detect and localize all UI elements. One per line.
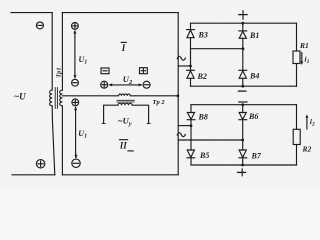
arrowhead i1 (down) [300,61,303,65]
svg-text:B6: B6 [248,112,258,121]
paper noise [0,0,320,188]
voltage U1 upper: minus terminal [72,79,79,86]
wire: left source bottom lead [12,174,55,176]
diode B7 [239,150,246,157]
contour II overline [120,139,128,141]
ac tilde bridge 2 [177,133,185,137]
ac tilde bridge 1 [177,56,185,60]
voltage U1 lower: minus terminal [72,159,80,167]
bridge 2 top rail [191,104,297,106]
contour II underline dash [128,150,133,152]
voltage U1 upper: arrow [74,32,76,78]
bridge 1 left column [190,23,192,29]
voltage U2: double arrow [110,84,141,86]
voltage U1 upper: plus terminal [72,23,79,30]
svg-text:B7: B7 [251,151,262,160]
diode B8 [187,113,194,120]
transformer Tp2 core [117,99,134,101]
diode B4 [239,69,247,71]
wire: bridge 1 ac branch [178,65,190,67]
svg-text:Tp1: Tp1 [55,67,62,77]
current i2 arrow [306,117,308,130]
bridge 1 top rail [191,22,297,24]
voltage U1 lower: plus terminal [72,99,79,106]
wire: bridge 2 mid link [178,139,243,141]
wire: loop right edge [177,13,179,175]
svg-text:B3: B3 [198,31,208,40]
arrowhead i2 (up) [306,114,309,118]
svg-text:B1: B1 [249,31,259,40]
wire: loop top [62,12,178,14]
svg-text:B4: B4 [249,72,259,81]
wire: bridge 1 mid link [191,48,244,50]
svg-text:II: II [119,141,128,151]
diode B5 [187,150,194,157]
svg-text:I: I [121,43,126,53]
bridge 2 right edge and resistor R2 [296,105,298,130]
arrowheads U1 upper [73,30,76,34]
arrowheads U1 lower [74,106,77,110]
svg-text:~U: ~U [14,92,26,102]
wire: loop bottom [62,174,178,176]
wire: center tap with transformer Tp2 primary humps [62,94,178,96]
bridge 1 right edge and resistor R1 [296,23,298,51]
current i1 arrow [301,53,303,64]
terminal: plus circle of ~U source [36,160,44,168]
diode B1 [239,30,247,32]
voltage U2: boxed plus [140,68,148,74]
transformer Tp1 secondary winding (left edge of loop, humps) [60,13,63,175]
bridge 1 bottom rail [191,85,297,87]
voltage U2: minus circle [143,81,150,88]
svg-text:R2: R2 [302,144,312,153]
arrowheads U2 [108,83,112,86]
voltage U2: plus circle [101,81,108,88]
svg-text:B5: B5 [199,151,209,160]
wire: bridge 2 ac branch [178,125,191,127]
bridge 1 middle column [242,23,244,31]
transformer Tp1 core [54,88,56,109]
svg-text:R1: R1 [299,41,309,50]
transformer Tp1 primary winding (vertical line x=52 with left humps) [50,13,55,175]
svg-text:B2: B2 [197,72,207,81]
svg-text:Tp 2: Tp 2 [153,99,166,106]
bridge 2 bottom rail [191,164,297,166]
bridge 2 middle column [242,105,244,113]
wire: left source top lead [11,12,52,14]
diode B6 [239,113,246,120]
terminal: minus circle of ~U source [36,22,43,29]
junction dots [177,94,180,97]
contour I overline [121,41,126,43]
bridge 2 left column [190,105,192,113]
voltage U2: boxed minus [101,68,109,74]
transformer Tp2 secondary winding and ~Uy leads [104,103,149,123]
diode B3 [187,29,195,31]
bridge 1 plus sign [239,14,247,16]
bridge 1 minus sign [238,90,246,92]
diode B2 [187,69,195,71]
svg-text:B8: B8 [198,113,208,122]
bridge 2 minus sign [239,101,247,103]
voltage U1 lower: arrow [75,108,77,158]
bridge 2 plus sign [238,171,246,173]
